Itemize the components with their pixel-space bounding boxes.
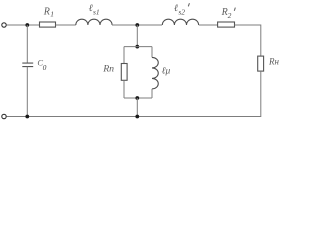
terminal: input top-left [2, 23, 6, 27]
inductor Ls2' [162, 19, 198, 25]
svg-text:R: R [43, 6, 50, 17]
wire: C0 branch lower [26, 67, 28, 117]
wire: bottom bar of parallel branch [124, 97, 152, 99]
wire: left branch down to Rn [123, 47, 125, 64]
capacitor C0 [22, 63, 33, 67]
wire: Rn to bottom bar [123, 80, 125, 98]
wire: C0 branch upper [26, 25, 28, 63]
svg-text:0: 0 [43, 63, 47, 72]
wire: R2' to top-right corner down to RH [235, 25, 261, 56]
inductor Lmu (magnetizing) [152, 57, 158, 89]
resistor RH (load) [258, 56, 264, 71]
node: junction dot on bottom rail below shunt [135, 115, 139, 119]
wire: R1 to Ls1 [56, 24, 76, 26]
wire: top rail from input terminal to R1 [7, 24, 40, 26]
wire: top bar of parallel branch [124, 46, 152, 48]
wire: Ls2' to R2' [199, 24, 218, 26]
svg-text:Rn: Rn [102, 64, 114, 75]
wire: shunt stem from node A down to parallel bar [136, 25, 138, 47]
resistor Rn (core loss) [121, 64, 127, 81]
wire: Lmu to bottom bar [151, 89, 153, 98]
node: junction dot at top of parallel branch [135, 45, 139, 49]
resistor R2' [218, 22, 235, 27]
svg-text:1: 1 [50, 10, 54, 19]
wire: RH down to bottom rail and bottom rail to output terminal [7, 71, 261, 116]
svg-text:s2: s2 [178, 8, 185, 17]
node A: junction dot on top rail [135, 23, 139, 27]
svg-text:s1: s1 [93, 8, 100, 17]
wire: Ls1 to Ls2 with node A junction [112, 24, 162, 26]
node: junction dot at bottom of parallel branch [135, 96, 139, 100]
svg-text:ℓμ: ℓμ [162, 66, 171, 76]
terminal: input bottom-left [2, 114, 6, 118]
node: junction dot top rail at C0 branch [25, 23, 29, 27]
svg-text:Rн: Rн [268, 57, 279, 67]
wire: stem from parallel branch to bottom rail [136, 98, 138, 117]
node: junction dot bottom rail at C0 branch [25, 115, 29, 119]
inductor Ls1 [76, 19, 112, 25]
wire: right branch down to Lmu [151, 47, 153, 58]
svg-text:2: 2 [228, 11, 232, 20]
resistor R1 [40, 22, 56, 27]
